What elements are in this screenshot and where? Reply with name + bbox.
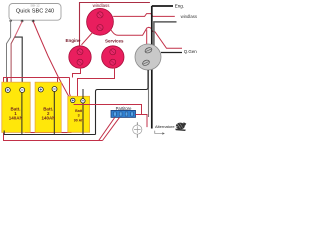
- wire: black riser B1 minus to bus: [21, 92, 23, 135]
- wire: long red horizontal to batteries: [3, 77, 70, 79]
- fuse F1: [133, 125, 142, 134]
- charger U1 Quick SBC 240: [9, 4, 61, 21]
- svg-text:3: 3: [78, 113, 80, 117]
- terminal B1 plus: [5, 88, 10, 93]
- wire: black riser B3 minus to bus: [82, 89, 84, 135]
- wire: red B1 plus loop down and right: [7, 92, 71, 133]
- terminal B2 plus: [38, 87, 43, 92]
- battery B3: [68, 96, 90, 132]
- wire: black bottom bus: [4, 131, 95, 135]
- svg-text:Services: Services: [105, 39, 124, 44]
- wire: red diagonals Partitore to bus: [99, 117, 115, 140]
- svg-text:90 Ah: 90 Ah: [74, 119, 84, 123]
- wire: red branch into changeover switch: [146, 30, 148, 48]
- wire: black jog to B1 minus terminal: [15, 37, 23, 88]
- svg-text:windlass: windlass: [181, 14, 197, 19]
- terminal B2 minus: [52, 87, 57, 92]
- wire: red junction down to B3 plus: [70, 78, 72, 133]
- wire: Services switch bottom red to B3: [78, 68, 115, 97]
- svg-text:windlass: windlass: [93, 3, 111, 8]
- wire: red windlass feed to right label: [113, 14, 175, 17]
- battery B2: [35, 82, 61, 132]
- wire: red B3 plus to right: [74, 105, 142, 115]
- battery B1: [2, 82, 30, 132]
- wire: red Partitore right to down: [136, 115, 148, 128]
- terminal B3 minus: [81, 99, 85, 103]
- svg-text:140Ah: 140Ah: [41, 115, 55, 120]
- switch S3 Services: [102, 46, 124, 68]
- svg-text:Quick SBC 240: Quick SBC 240: [16, 9, 54, 15]
- svg-text:140Ah: 140Ah: [9, 115, 23, 120]
- wire: red from windlass switch to Q.Gen with hop: [111, 27, 182, 48]
- wire: black from changeover right to Q.Gen: [161, 52, 182, 54]
- wire: top red feed from Engine switch up and across to Eng node: [80, 3, 150, 47]
- wire: red diagonal U1 + out3 to battery B3: [33, 22, 71, 101]
- arrow under label: [155, 131, 163, 134]
- wire: gray below changeover: [148, 70, 150, 117]
- wire: black Eng vertical main: [151, 6, 153, 129]
- wire: black Eng horizontal: [152, 5, 173, 7]
- wire: dark red branch to B1: [11, 37, 15, 84]
- svg-text:Alternatore: Alternatore: [155, 124, 175, 129]
- svg-text:Engine: Engine: [65, 38, 80, 43]
- terminal + of U1: [32, 20, 35, 23]
- switch S2 Engine: [69, 46, 91, 68]
- wire: black riser B2 minus to bus: [53, 91, 55, 135]
- svg-text:SBI-12: SBI-12: [30, 4, 40, 8]
- wire: gray from U1 minus to battery B1: [7, 22, 11, 88]
- wire: red drop to B1 plus: [7, 78, 9, 89]
- wire: gray L to windlass label area: [154, 22, 177, 48]
- alternator icon: [175, 122, 186, 131]
- terminal B3 plus: [71, 98, 75, 102]
- terminal - of U1: [9, 20, 12, 22]
- switch S1 windlass: [87, 8, 114, 35]
- isolator Partitore: [111, 110, 136, 117]
- svg-text:Eng.: Eng.: [175, 4, 184, 9]
- wire: Engine switch bottom red: [73, 68, 81, 78]
- changeover switch S4: [135, 44, 161, 70]
- wire: red left drop to bottom bus: [4, 78, 103, 141]
- wire: black loop to changeover: [96, 70, 149, 135]
- wire: red stub from U1 + to junction: [15, 22, 23, 38]
- terminal B1 minus: [20, 88, 25, 93]
- svg-text:Q.Gen: Q.Gen: [184, 49, 197, 54]
- terminal + of U1: [21, 20, 24, 23]
- wire: red diagonal windlass to Engine switch: [82, 33, 93, 45]
- wire: red drop at diagonal crossing through B2: [57, 78, 59, 133]
